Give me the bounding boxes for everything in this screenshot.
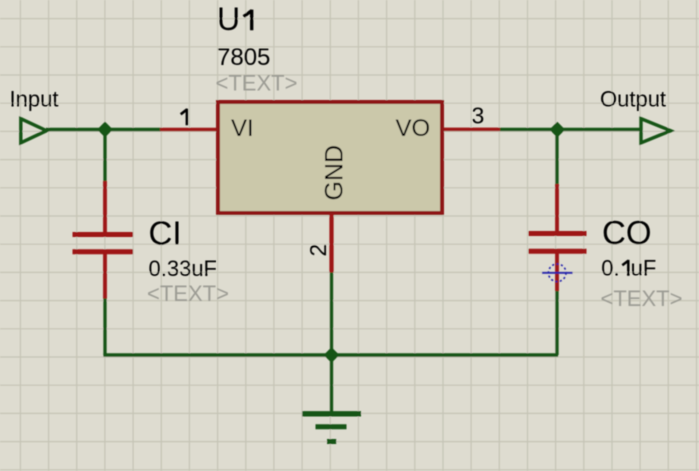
terminal input [21,119,47,143]
wire CO upper vertical [555,129,558,185]
node junction input/CI [99,124,111,136]
svg-text:2: 2 [305,244,331,257]
node junction ground rail [326,349,338,361]
wire input horizontal [46,128,161,131]
capacitor CO [529,184,587,291]
svg-text:CI: CI [149,215,182,252]
svg-text:VI: VI [231,115,254,142]
wire GND pin lower vertical [330,272,333,355]
node junction output/CO [551,124,563,136]
pin 1 VI stub [160,128,216,132]
pin number 1 [181,109,187,126]
svg-text:7805: 7805 [217,44,270,71]
svg-text:<TEXT>: <TEXT> [147,281,229,306]
terminal output [641,119,671,143]
wire CO lower vertical [555,291,558,356]
svg-text:CO: CO [602,214,652,251]
pin 3 VO stub [444,128,500,132]
svg-text:0.33uF: 0.33uF [149,256,218,281]
marker origin CO [542,264,573,282]
svg-text:Output: Output [600,87,666,112]
svg-text:0.: 0. [601,256,619,281]
svg-text:<TEXT>: <TEXT> [216,71,298,96]
svg-text:uF: uF [631,256,657,281]
wire CI lower vertical [103,298,106,356]
wire bottom rail [103,353,558,356]
pin 2 GND stub [329,214,333,273]
svg-text:GND: GND [321,145,349,201]
svg-text:<TEXT>: <TEXT> [601,286,683,311]
svg-text:VO: VO [396,115,431,142]
svg-text:3: 3 [472,103,485,129]
wire ground stub [330,355,333,412]
ground [302,414,361,442]
svg-text:U: U [217,1,240,37]
capacitor CI [73,181,134,299]
regulator U1 body [218,102,442,213]
wire output horizontal [500,128,641,131]
wire CI upper vertical [103,130,106,183]
svg-text:Input: Input [10,87,59,112]
